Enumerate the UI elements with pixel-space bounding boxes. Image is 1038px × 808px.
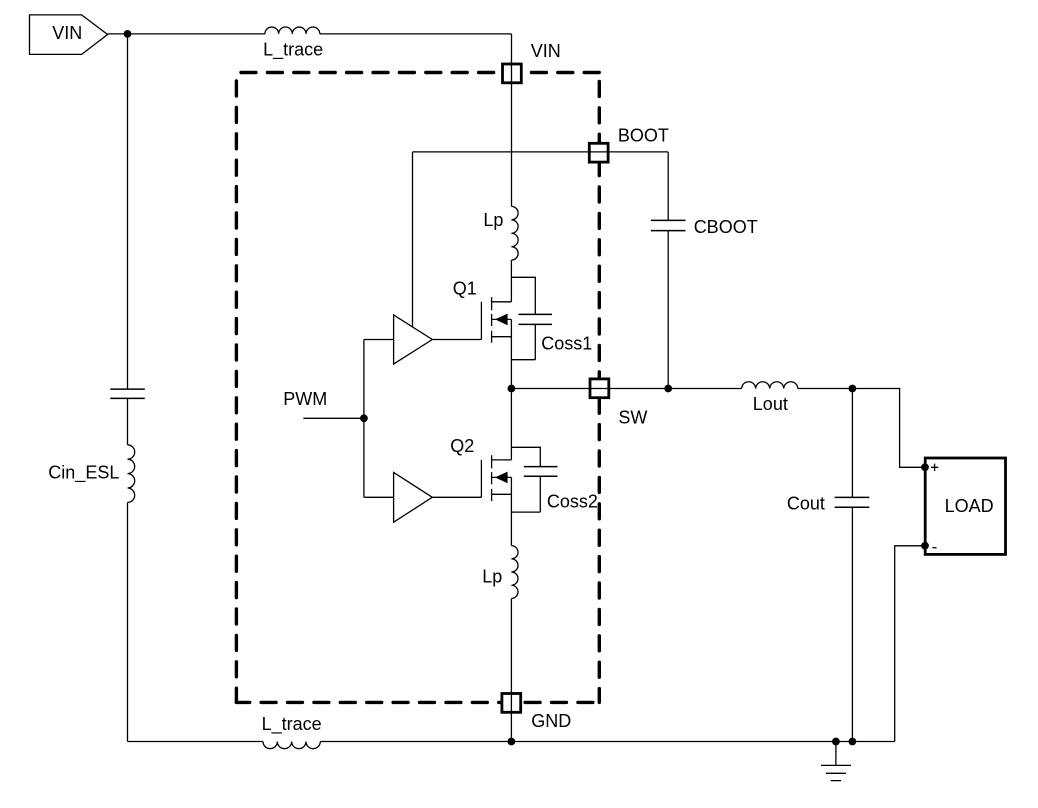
- svg-text:SW: SW: [618, 408, 647, 428]
- svg-text:L_trace: L_trace: [262, 714, 322, 735]
- svg-text:Coss1: Coss1: [541, 333, 592, 353]
- svg-text:Q1: Q1: [453, 278, 477, 298]
- svg-text:L_trace: L_trace: [263, 40, 323, 61]
- svg-text:Coss2: Coss2: [547, 492, 598, 512]
- svg-text:Lp: Lp: [482, 566, 502, 586]
- svg-text:VIN: VIN: [531, 41, 561, 61]
- svg-text:PWM: PWM: [283, 389, 327, 409]
- svg-text:VIN: VIN: [52, 23, 82, 43]
- svg-text:Q2: Q2: [450, 436, 474, 456]
- svg-text:BOOT: BOOT: [618, 126, 669, 146]
- svg-text:Lp: Lp: [483, 210, 503, 230]
- svg-text:CBOOT: CBOOT: [694, 217, 758, 237]
- svg-text:GND: GND: [531, 711, 571, 731]
- svg-text:Cout: Cout: [787, 494, 825, 514]
- svg-text:Lout: Lout: [753, 394, 788, 414]
- svg-text:Cin_ESL: Cin_ESL: [48, 463, 119, 484]
- svg-text:LOAD: LOAD: [945, 496, 994, 516]
